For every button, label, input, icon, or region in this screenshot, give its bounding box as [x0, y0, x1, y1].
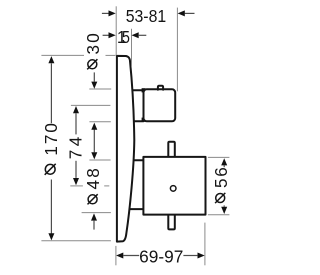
ext line: O56 top right [208, 156, 230, 158]
dim 15 left arrow [103, 34, 109, 36]
body center screw circle [170, 186, 176, 192]
dim 53-81 left arrow [102, 12, 109, 14]
svg-text:48: 48 [84, 166, 103, 189]
dim O170 bottom arrow (points down, inside) [50, 180, 52, 235]
dim 69-97 right arrow (points right, inside) [183, 255, 197, 257]
dim O56 digits (rotated) [212, 165, 231, 188]
svg-text:69-97: 69-97 [139, 248, 183, 267]
neck line bottom [126, 208, 143, 210]
dim O170 diameter symbol [45, 164, 56, 175]
ext line: right of 15 dim (plate front) [131, 29, 133, 68]
svg-text:30: 30 [84, 31, 103, 54]
dim O30 top arrow (points down to knob top) [93, 72, 95, 81]
handle knob [144, 89, 176, 121]
dim O30 diameter symbol [87, 59, 97, 69]
handle stop notch bottom [142, 118, 146, 122]
ext line: 69-97 right [204, 223, 206, 266]
handle collar sleeve [131, 90, 144, 121]
dim 74 bottom arrow (points down, inside) [75, 161, 77, 178]
svg-text:56: 56 [212, 165, 231, 188]
ext line: right of 53-81 dim (handle front) [176, 8, 178, 92]
dim O48 diameter symbol [88, 194, 98, 204]
dim 74 digits (rotated) [67, 133, 86, 159]
ext line: plate back extended up (left of 53-81 and 15 dims) [115, 6, 117, 55]
dim O170 top arrow (points up, inside) [50, 63, 52, 123]
dim 69-97 left arrow (points left, inside) [123, 255, 139, 257]
dim O48 digits (rotated) [84, 166, 103, 189]
ext line: knob centerline / 74 top [71, 104, 111, 106]
ext line: 69-97 left [115, 246, 117, 265]
body top tab [168, 142, 175, 157]
dim 15 right arrow [139, 34, 147, 36]
handle top tab [158, 86, 163, 90]
ext line: O48 top [89, 159, 110, 161]
dim 74 top arrow (points up, inside) [75, 113, 77, 134]
dim O170 digits (rotated) [42, 121, 61, 156]
body bottom tab [168, 215, 175, 230]
svg-text:170: 170 [42, 121, 61, 156]
dim O56 bottom arrow (points down, inside) [223, 205, 225, 206]
dim O56 diameter symbol [215, 193, 225, 203]
dim 53-81 right arrow [185, 12, 195, 14]
svg-text:74: 74 [67, 133, 86, 159]
ext line: plate top / O170 top [41, 54, 84, 56]
svg-text:5: 5 [122, 28, 130, 47]
ext line: O48 bottom [82, 212, 111, 214]
valve body box [143, 157, 205, 215]
neck line top (valve neck behind plate) [128, 159, 143, 161]
dim O30 digits (rotated) [84, 31, 103, 54]
ext line: knob bottom / O30 bottom [89, 121, 110, 123]
ext line: plate bottom / O170 bottom [41, 240, 111, 242]
ext line: knob top / O30 top [89, 88, 111, 90]
shared stem: O30 bottom arrow (up) and O48 top arrow (down) [93, 130, 95, 153]
ext line: O56 bottom right [208, 214, 230, 216]
svg-text:53-81: 53-81 [126, 7, 167, 26]
ext line: 74 bottom [70, 185, 83, 187]
handle stop notch top [142, 88, 146, 92]
escutcheon plate (side view) [117, 56, 134, 242]
dim O48 bottom arrow (points up) [93, 221, 95, 230]
dim O56 top arrow (points up, inside) [223, 166, 225, 168]
